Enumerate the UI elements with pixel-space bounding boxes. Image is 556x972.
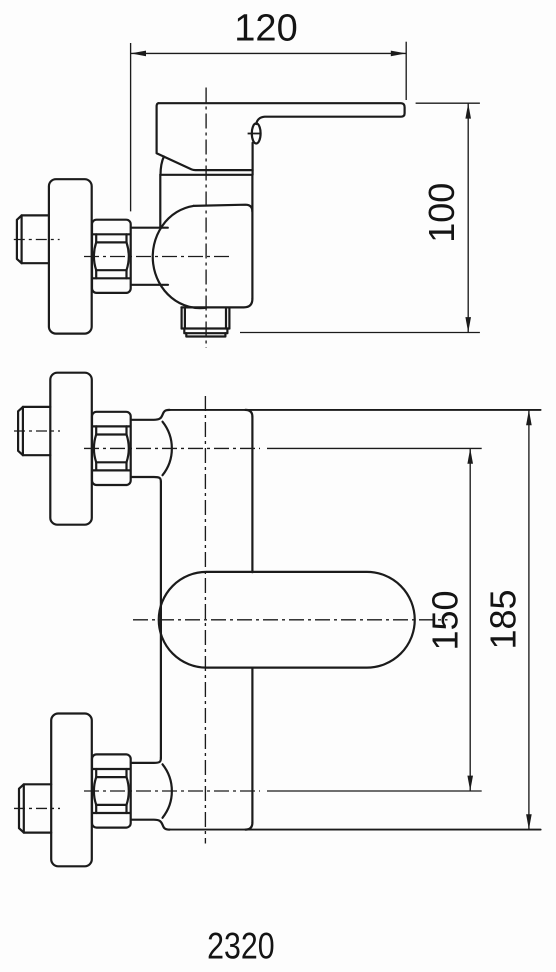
svg-text:185: 185 [482,589,523,649]
svg-text:150: 150 [424,590,465,650]
svg-text:2320: 2320 [207,926,274,968]
svg-text:100: 100 [421,183,462,243]
svg-text:120: 120 [234,8,297,50]
